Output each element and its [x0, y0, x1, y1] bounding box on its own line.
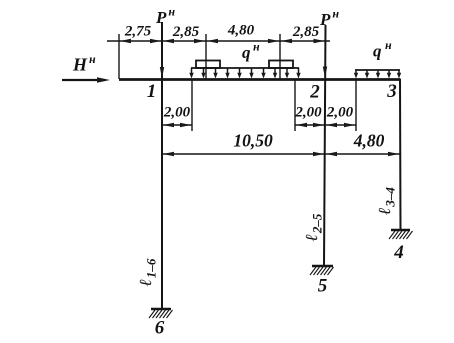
svg-text:ℓ2–5: ℓ2–5 — [302, 213, 325, 241]
dimension 4,80 (bottom) — [325, 153, 400, 155]
svg-text:10,50: 10,50 — [233, 131, 273, 151]
svg-text:ℓ1–6: ℓ1–6 — [136, 258, 159, 286]
svg-text:2,75: 2,75 — [124, 24, 152, 40]
svg-text:2,85: 2,85 — [172, 24, 200, 40]
svg-text:3: 3 — [386, 81, 397, 102]
distributed load q middle: right step rectangle — [269, 61, 293, 69]
top dimension tick at 2,85/4,80 boundary — [205, 34, 207, 79]
support at node 6: hatching — [149, 310, 173, 318]
svg-text:2,00: 2,00 — [294, 105, 322, 121]
svg-text:4,80: 4,80 — [227, 23, 255, 39]
force P2 arrowhead — [323, 67, 327, 79]
force P1 arrowhead — [160, 67, 164, 79]
svg-text:4,80: 4,80 — [353, 131, 385, 151]
dimension 2,00 right of node 1 — [162, 124, 192, 126]
svg-text:2,00: 2,00 — [163, 105, 191, 121]
support at node 4: hatching — [389, 231, 413, 239]
top dimension tick at 4,80/2,85 boundary — [279, 34, 281, 79]
distributed load q middle: top line — [191, 67, 299, 69]
svg-text:2,85: 2,85 — [292, 24, 320, 40]
distributed load q right: arrows — [356, 70, 399, 75]
force H arrow — [62, 79, 100, 81]
svg-text:6: 6 — [155, 318, 165, 339]
distributed load q middle: left step rectangle — [196, 61, 220, 69]
distributed load q middle: arrows — [192, 68, 299, 75]
dimension 10,50 — [162, 153, 325, 155]
top dimension line — [107, 40, 330, 42]
top dimension tick left end — [118, 34, 120, 79]
column 3-4 — [399, 79, 402, 230]
svg-text:Hн: Hн — [72, 52, 96, 75]
svg-text:Pн: Pн — [319, 7, 339, 30]
svg-text:2,00: 2,00 — [326, 105, 354, 121]
support at node 6: ground line — [151, 308, 171, 310]
support at node 5: ground line — [312, 265, 333, 267]
projection line at x=295 — [294, 79, 296, 131]
top dimension arrows — [120, 39, 325, 44]
svg-text:1: 1 — [147, 81, 157, 102]
svg-text:2: 2 — [309, 82, 320, 103]
projection line at x=192 — [191, 79, 193, 131]
column 2-5 — [324, 25, 326, 266]
svg-text:qн: qн — [373, 38, 392, 61]
column 1-6 — [161, 22, 163, 309]
projection line at x=356 — [355, 79, 357, 131]
support at node 4: ground line — [391, 229, 410, 231]
distributed load q right: top line — [355, 69, 400, 71]
svg-text:qн: qн — [242, 40, 260, 63]
support at node 5: hatching — [310, 267, 334, 275]
svg-text:5: 5 — [318, 276, 328, 297]
svg-text:4: 4 — [393, 242, 404, 263]
beam 1-2-3 — [119, 78, 401, 81]
svg-text:ℓ3–4: ℓ3–4 — [375, 187, 398, 215]
dimension 2,00 right of node 2 — [325, 124, 356, 126]
dimension 2,00 left of node 2 — [295, 124, 325, 126]
